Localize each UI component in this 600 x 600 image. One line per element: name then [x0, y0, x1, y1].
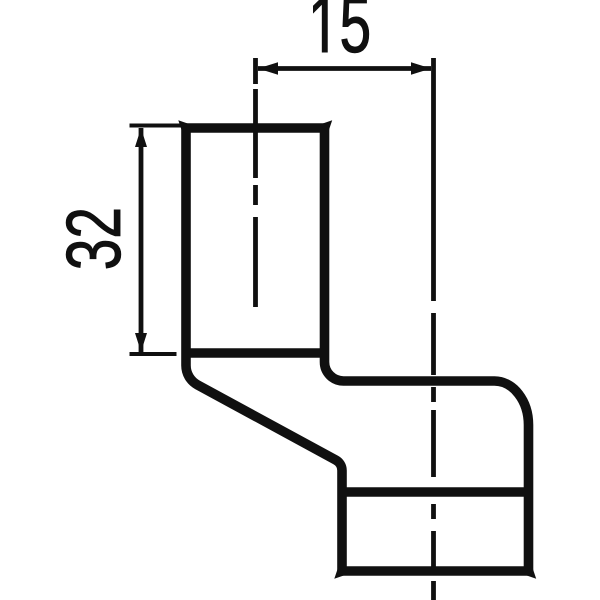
- corner nub top-left: [178, 120, 191, 133]
- part outline silhouette: [186, 128, 529, 571]
- dimension line 15: [258, 66, 431, 71]
- corner nub bottom-left: [334, 566, 347, 579]
- extension line top for 32: [130, 124, 183, 128]
- dimension line 32: [139, 128, 144, 352]
- centerline lower axis: [431, 58, 436, 600]
- inner edge: bottom of upper rectangle: [186, 348, 325, 358]
- arrow up: [135, 128, 147, 147]
- centerline upper rect: [253, 58, 258, 307]
- corner nub bottom-right: [524, 566, 537, 579]
- arrow down: [135, 333, 147, 352]
- arrow left: [258, 62, 278, 74]
- corner nub top-right: [320, 120, 333, 133]
- dimension text 15: [313, 0, 368, 53]
- extension line bottom for 32: [130, 352, 177, 356]
- arrow right: [411, 62, 431, 74]
- inner edge: top of lower rectangle: [342, 487, 529, 497]
- dimension text 32: [66, 210, 121, 268]
